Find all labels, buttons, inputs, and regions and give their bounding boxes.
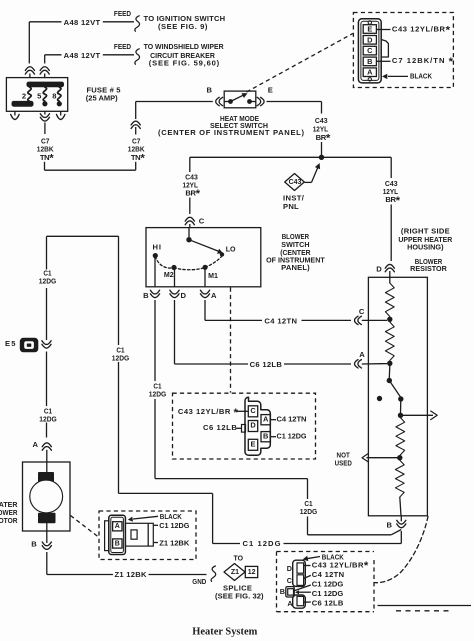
lead + label C1 12DG (motor inset): [153, 521, 189, 530]
label HEATER BLOWER MOTOR: [0, 500, 18, 525]
label C43 12YL BR* (left): [183, 172, 201, 200]
svg-text:(CENTER OF INSTRUMENT PANEL): (CENTER OF INSTRUMENT PANEL): [158, 128, 304, 137]
tap NOT USED: [335, 451, 400, 468]
svg-text:M1: M1: [208, 271, 219, 280]
lead + label C1 12DG (bottom inset, wire 1): [294, 580, 344, 591]
svg-text:Heater System: Heater System: [192, 626, 257, 638]
svg-text:E: E: [268, 86, 273, 95]
svg-text:E: E: [251, 440, 256, 449]
svg-text:A: A: [367, 68, 373, 77]
svg-text:D: D: [180, 291, 186, 300]
connector body (4-way heater housing): [286, 560, 306, 608]
svg-text:FEED: FEED: [114, 42, 132, 51]
svg-text:D: D: [287, 564, 292, 573]
svg-text:C6 12LB: C6 12LB: [312, 599, 344, 608]
connector inset box (motor connector): [99, 511, 196, 560]
svg-text:A: A: [287, 599, 292, 608]
svg-text:HI: HI: [153, 243, 162, 252]
wire C1 12DG down to motor: [46, 288, 48, 438]
connector C at blower resistor: [355, 307, 365, 325]
fuse pin 5 output with connector C7: [40, 111, 49, 134]
label FUSE #5 (25 AMP): [86, 85, 121, 102]
connector B at motor: [31, 540, 51, 550]
lead + label C43 12YL/BR* (bottom inset): [304, 560, 369, 572]
svg-text:B: B: [280, 587, 285, 596]
svg-text:12DG: 12DG: [149, 390, 167, 399]
svg-text:C43: C43: [289, 179, 302, 186]
svg-text:A48 12VT: A48 12VT: [64, 51, 101, 60]
pin D of blower switch connector: [248, 421, 257, 432]
svg-text:(SEE FIG. 32): (SEE FIG. 32): [215, 592, 264, 601]
wire C7 12BK riser to heat mode switch B: [136, 102, 213, 135]
lead + label C4 12TN (bottom inset): [304, 570, 344, 579]
svg-text:A: A: [32, 440, 38, 449]
connector break on A48 wire 1: [25, 70, 34, 74]
svg-text:PNL: PNL: [283, 202, 299, 211]
svg-text:C4 12TN: C4 12TN: [277, 415, 307, 424]
lead + label Z1 12BK (motor inset): [153, 538, 190, 547]
wire C1 12DG switch B to resistor B: [155, 300, 401, 535]
connector break at E5: [42, 341, 51, 345]
connector D below blower switch: [170, 290, 187, 300]
svg-text:BLACK: BLACK: [160, 512, 182, 521]
connector break on C7 wire: [131, 125, 140, 129]
wire A48 12VT feed to ignition switch: [29, 16, 139, 78]
svg-text:C6 12LB: C6 12LB: [203, 423, 237, 432]
lead + label C43 12YL/BR * (center inset): [178, 407, 248, 419]
wire C43 to junction: [321, 142, 323, 157]
label C1 12DG (riser x307): [300, 499, 318, 516]
svg-text:C: C: [199, 217, 205, 226]
svg-text:C6 12LB: C6 12LB: [250, 360, 283, 369]
pin A drain tail: [368, 78, 371, 81]
svg-text:Z1 12BK: Z1 12BK: [159, 538, 190, 547]
svg-text:(SEE FIG. 9): (SEE FIG. 9): [158, 22, 208, 31]
pin E of instrument panel connector: [363, 25, 376, 34]
svg-text:B: B: [206, 86, 212, 95]
svg-text:C1 12DG: C1 12DG: [243, 539, 281, 548]
pin B of heater housing connector: [280, 587, 294, 596]
pin A of motor connector: [113, 522, 122, 531]
svg-text:C1 12DG: C1 12DG: [159, 521, 189, 530]
svg-text:12: 12: [248, 569, 256, 576]
connector break on A48 wire 2: [40, 70, 49, 74]
tap output arrow (M1 speed): [401, 411, 438, 420]
pin C of instrument panel connector: [363, 46, 376, 55]
connector A at motor: [32, 440, 51, 451]
dashed leader motor to connector inset: [71, 516, 99, 538]
svg-text:FEED: FEED: [114, 9, 132, 18]
dashed leader heat mode switch to connector inset: [247, 34, 353, 93]
lead + label C1 12DG (center inset): [270, 432, 306, 441]
svg-text:12DG: 12DG: [39, 415, 57, 424]
switch S1 heat mode select: [224, 91, 256, 108]
svg-text:C: C: [287, 576, 292, 585]
off-page reference Z1 splice (SEE FIG. 32): [215, 554, 264, 601]
lead + label C4 12TN (center inset): [270, 415, 306, 424]
wire C1 12DG resistor B to motor branch: [47, 236, 402, 543]
lead + label BLACK (bottom inset): [303, 553, 345, 562]
connector C on blower switch: [185, 217, 205, 226]
grommet E5: [5, 338, 38, 353]
svg-text:D: D: [367, 35, 373, 44]
wire C43 branch lines from junction: [190, 157, 391, 178]
label HEAT MODE SELECT SWITCH (CENTER OF INSTRUMENT PANEL): [158, 114, 304, 137]
svg-text:C1 12DG: C1 12DG: [312, 580, 344, 589]
svg-text:(SEE FIG. 59,60): (SEE FIG. 59,60): [149, 58, 220, 67]
lead + label C7 12BK/TN * (inset): [376, 56, 453, 68]
svg-text:B: B: [263, 431, 268, 440]
pin A of instrument panel connector: [363, 68, 376, 77]
pin E of blower switch connector: [248, 439, 257, 450]
label BLOWER RESISTOR: [410, 257, 447, 273]
svg-text:MOTOR: MOTOR: [0, 516, 18, 525]
lead + label C6 12LB (bottom inset): [304, 599, 344, 608]
svg-text:C4 12TN: C4 12TN: [264, 317, 297, 326]
svg-text:A48 12VT: A48 12VT: [64, 18, 101, 27]
pin D key tab: [242, 425, 246, 433]
pin B of motor connector: [113, 539, 122, 548]
lead + label C6 12LB (center inset): [203, 423, 242, 432]
svg-text:B: B: [143, 291, 149, 300]
motor M1 heater blower motor: [23, 462, 71, 531]
label C1 12DG (motor branch upper): [39, 268, 57, 285]
pin C of heater housing connector: [287, 575, 304, 586]
terminal B of heat mode switch: [206, 86, 222, 106]
svg-text:M2: M2: [164, 270, 174, 279]
svg-text:D: D: [376, 265, 382, 274]
connector inset box (blower switch connector): [173, 393, 316, 459]
pin D of heater housing connector: [287, 563, 304, 573]
label BLOWER SWITCH (CENTER OF INSTRUMENT PANEL): [266, 232, 325, 272]
connector B below blower switch: [143, 290, 159, 300]
label TO WINDSHIELD WIPER CIRCUIT BREAKER (SEE FIG. 59,60): [144, 42, 224, 67]
off-page squiggle to ground splice: [211, 566, 216, 581]
label C43 12YL BR* (upper): [313, 116, 331, 145]
wire C7 12BK from fuse to switch (lower run): [45, 162, 136, 170]
dashed leader blower switch to connector inset: [230, 288, 232, 393]
lead + label BLACK (motor inset): [128, 512, 182, 522]
adjacent diagram edge line: [378, 605, 472, 607]
pin B of instrument panel connector: [363, 57, 376, 66]
label C1 12DG (motor branch lower): [39, 407, 57, 424]
wire C43 into blower switch C: [189, 198, 191, 228]
svg-text:A: A: [359, 350, 365, 359]
wire A48 12VT feed to wiper breaker: [45, 49, 140, 78]
svg-text:B: B: [115, 540, 120, 547]
svg-text:B: B: [386, 520, 392, 529]
label C43 12YL BR* (right): [383, 179, 401, 207]
svg-text:C4 12TN: C4 12TN: [312, 570, 344, 579]
svg-text:Z1 12BK: Z1 12BK: [115, 570, 148, 579]
pin B of blower switch connector: [261, 431, 270, 441]
connector D at blower resistor: [376, 264, 394, 273]
connector body (5-way offset): [245, 397, 270, 455]
pin E drain tail: [368, 21, 371, 24]
wire C43 into resistor D: [390, 205, 391, 278]
fuse pin 2 stub arrow: [11, 111, 19, 119]
svg-text:2: 2: [22, 92, 26, 101]
svg-text:(25 AMP): (25 AMP): [86, 94, 118, 103]
svg-text:A: A: [115, 523, 120, 530]
svg-text:C1 12DG: C1 12DG: [312, 589, 344, 598]
pin A of blower switch connector: [261, 414, 270, 424]
off-page reference C43 INST/PNL: [283, 163, 320, 211]
svg-text:A: A: [211, 291, 217, 300]
svg-text:12DG: 12DG: [112, 354, 130, 363]
wire C6 12LB switch D to resistor A: [175, 300, 388, 364]
wire Z1 12BK motor ground: [47, 531, 207, 575]
label C1 12DG (riser x118): [112, 346, 130, 363]
svg-text:E5: E5: [5, 339, 16, 348]
svg-text:D: D: [250, 421, 256, 430]
connector A at blower resistor: [355, 350, 366, 368]
connector B at resistor bottom: [386, 516, 405, 530]
resistor R1 housing box: [368, 277, 427, 516]
pin C of blower switch connector: [248, 406, 257, 417]
dashed leader resistor to connector inset: [374, 517, 428, 583]
junction node C43: [319, 155, 324, 160]
svg-text:PANEL): PANEL): [281, 263, 310, 272]
lead + label BLACK (top-right inset): [382, 71, 432, 80]
connector body (2-way motor): [105, 515, 154, 554]
connector A below blower switch: [200, 290, 217, 300]
svg-text:C1 12DG: C1 12DG: [277, 432, 307, 441]
svg-text:BLACK: BLACK: [410, 71, 432, 80]
svg-text:Z1: Z1: [231, 569, 239, 576]
svg-text:12DG: 12DG: [300, 507, 318, 516]
svg-text:C: C: [359, 307, 365, 316]
connector inset box (heater housing connector): [277, 552, 375, 612]
label C7 12BK TN* (right): [128, 137, 146, 165]
label C7 12BK TN* (left): [37, 137, 55, 165]
wire C43 12YL from switch E: [267, 102, 322, 114]
connector body (5-way): [358, 19, 381, 83]
connector inset box (instrument panel connector): [353, 13, 453, 88]
lead + label C43 12YL/BR* (inset): [376, 24, 450, 36]
wire C4 12TN switch A to resistor C: [205, 300, 387, 320]
svg-text:USED: USED: [335, 459, 353, 468]
pin A of heater housing connector: [287, 596, 303, 608]
svg-text:E: E: [367, 25, 372, 34]
svg-text:B: B: [31, 540, 37, 549]
svg-text:RESISTOR: RESISTOR: [410, 264, 447, 273]
resistor R1 element with taps: [377, 277, 405, 516]
fuse F5 block (pins 2,5,8): [6, 78, 67, 112]
label TO IGNITION SWITCH (SEE FIG. 9): [144, 14, 226, 31]
adjacent diagram dashes: [396, 610, 449, 612]
svg-text:C: C: [367, 46, 373, 55]
svg-text:TO WINDSHIELD WIPER: TO WINDSHIELD WIPER: [144, 42, 224, 51]
svg-text:A: A: [263, 414, 269, 423]
lead + label C1 12DG (bottom inset, wire 2): [295, 589, 343, 598]
connector lock tab: [381, 40, 388, 58]
svg-text:LO: LO: [226, 245, 236, 254]
svg-text:GND: GND: [192, 577, 206, 586]
terminal E of heat mode switch: [257, 86, 273, 106]
switch S2 blower switch: [146, 228, 261, 287]
svg-text:TO: TO: [234, 554, 244, 563]
label C1 12DG (switch B wire): [149, 382, 167, 399]
fuse pin 8 stub arrow: [57, 111, 65, 119]
svg-text:C: C: [250, 406, 256, 415]
pin D of instrument panel connector: [363, 35, 376, 44]
label (RIGHT SIDE UPPER HEATER HOUSING): [398, 226, 452, 251]
wire into motor A: [46, 450, 48, 462]
svg-text:12DG: 12DG: [39, 276, 57, 285]
svg-text:HOUSING): HOUSING): [407, 243, 444, 252]
svg-text:B: B: [367, 57, 372, 66]
svg-text:8: 8: [52, 92, 56, 101]
